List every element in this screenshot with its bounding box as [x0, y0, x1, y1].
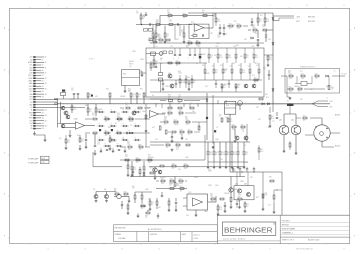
svg-text:2K2: 2K2 [179, 115, 182, 117]
svg-text:R24: R24 [186, 46, 189, 48]
svg-text:22K: 22K [246, 57, 248, 59]
svg-text:SGN: SGN [29, 97, 32, 99]
svg-text:1K: 1K [138, 96, 140, 98]
svg-text:47P: 47P [211, 201, 213, 203]
svg-text:10U: 10U [97, 144, 100, 146]
svg-text:LED2: LED2 [29, 89, 33, 91]
svg-text:C58: C58 [97, 142, 100, 144]
svg-text:R42: R42 [176, 143, 179, 145]
svg-text:22K: 22K [81, 141, 83, 143]
svg-text:220R: 220R [150, 157, 155, 159]
svg-text:1N4148: 1N4148 [224, 193, 229, 195]
svg-text:1K: 1K [225, 34, 227, 36]
svg-text:12V: 12V [129, 66, 132, 68]
svg-text:OUT: OUT [29, 99, 32, 101]
svg-text:100K: 100K [260, 151, 263, 153]
svg-text:R11: R11 [269, 57, 272, 59]
svg-text:4K7: 4K7 [160, 63, 163, 65]
svg-text:A12: A12 [42, 85, 45, 88]
svg-text:R59: R59 [252, 75, 255, 77]
svg-text:4K7: 4K7 [238, 201, 241, 203]
svg-text:R91: R91 [168, 111, 171, 113]
svg-text:R49: R49 [227, 152, 230, 154]
svg-text:R73: R73 [229, 119, 232, 121]
svg-text:R73: R73 [303, 116, 306, 118]
svg-text:1N4148: 1N4148 [120, 96, 125, 98]
svg-text:330R: 330R [241, 129, 244, 131]
svg-text:10K: 10K [315, 78, 317, 80]
svg-text:R: R [105, 116, 106, 118]
svg-text:6: 6 [232, 248, 233, 250]
svg-text:B: B [354, 70, 356, 72]
svg-text:R42: R42 [152, 65, 155, 67]
svg-text:10K: 10K [265, 195, 268, 197]
svg-text:47P: 47P [169, 21, 172, 23]
svg-text:R36: R36 [252, 46, 255, 48]
svg-text:R81: R81 [288, 71, 291, 73]
svg-text:22P: 22P [256, 107, 259, 109]
svg-text:R22: R22 [234, 21, 237, 23]
svg-text:R34: R34 [237, 24, 240, 26]
svg-text:220P: 220P [133, 169, 136, 171]
svg-text:SPEAKER PROTECT: SPEAKER PROTECT [300, 66, 316, 69]
svg-text:C54: C54 [117, 113, 120, 115]
svg-text:R12: R12 [108, 127, 111, 129]
svg-text:C18: C18 [153, 30, 156, 32]
svg-text:10K: 10K [185, 118, 188, 120]
svg-text:IN-R: IN-R [29, 67, 33, 69]
svg-text:C42: C42 [170, 46, 173, 48]
svg-text:47P: 47P [118, 121, 120, 123]
svg-text:jul.07.,1: jul.07.,1 [193, 235, 200, 237]
svg-text:A9: A9 [45, 77, 47, 80]
svg-text:R82: R82 [208, 169, 211, 171]
svg-text:R21: R21 [246, 55, 249, 57]
svg-text:R56: R56 [224, 84, 227, 86]
svg-text:VN: VN [30, 128, 32, 130]
svg-text:47K: 47K [300, 99, 303, 101]
svg-text:R: R [111, 123, 112, 125]
svg-text:A16: A16 [42, 96, 45, 99]
svg-text:R12: R12 [150, 24, 153, 26]
svg-text:NOTE 1: NOTE 1 [89, 59, 95, 61]
svg-text:D5: D5 [288, 132, 290, 134]
svg-text:R86: R86 [265, 193, 268, 195]
svg-text:R60: R60 [219, 55, 222, 57]
svg-text:10K: 10K [185, 139, 188, 141]
svg-text:PROJECT: PROJECT [282, 220, 291, 222]
svg-text:GND: GND [29, 70, 33, 72]
svg-text:R36: R36 [140, 89, 143, 91]
svg-text:R12: R12 [193, 80, 196, 82]
svg-text:47K: 47K [245, 154, 247, 156]
svg-text:100N: 100N [271, 118, 274, 120]
svg-text:A23: A23 [45, 114, 48, 117]
svg-text:A14: A14 [42, 90, 45, 93]
svg-text:47P: 47P [298, 91, 300, 93]
svg-text:B-: B- [31, 110, 33, 112]
svg-text:A22: A22 [42, 111, 45, 114]
svg-text:0R33: 0R33 [232, 171, 236, 173]
svg-text:R75: R75 [242, 70, 245, 72]
svg-text:PWR: PWR [29, 118, 33, 120]
svg-text:A26: A26 [42, 122, 45, 125]
svg-text:47P: 47P [183, 18, 185, 20]
svg-text:C45: C45 [220, 159, 223, 161]
svg-text:100K: 100K [242, 72, 245, 74]
svg-text:DRAWN: DRAWN [115, 233, 122, 236]
svg-text:R63: R63 [168, 95, 171, 97]
svg-text:4K7: 4K7 [223, 87, 226, 89]
svg-text:IC2B: IC2B [147, 108, 152, 110]
svg-text:D5: D5 [214, 55, 216, 57]
svg-text:C64: C64 [178, 95, 181, 97]
svg-text:100K: 100K [145, 189, 149, 191]
svg-text:®: ® [273, 223, 275, 226]
svg-text:14:42: 14:42 [194, 238, 199, 240]
svg-text:220P: 220P [221, 154, 224, 156]
svg-text:A5: A5 [45, 66, 47, 69]
svg-text:R94: R94 [232, 125, 235, 127]
svg-text:10K: 10K [125, 156, 128, 158]
svg-text:A8: A8 [42, 74, 44, 77]
svg-text:R34: R34 [138, 94, 141, 96]
svg-text:CH2: CH2 [29, 123, 32, 125]
svg-text:D5: D5 [196, 63, 198, 65]
svg-text:R90: R90 [246, 204, 249, 206]
svg-text:220P: 220P [186, 124, 189, 126]
svg-text:22K: 22K [141, 208, 143, 210]
svg-text:R88: R88 [245, 152, 248, 154]
svg-text:A11: A11 [45, 82, 48, 85]
svg-text:1: 1 [47, 5, 48, 7]
svg-text:47P: 47P [210, 57, 212, 59]
svg-text:10K: 10K [235, 86, 238, 88]
svg-text:R98: R98 [209, 152, 212, 154]
svg-text:R: R [129, 116, 130, 118]
svg-text:R32: R32 [216, 46, 219, 48]
svg-text:22K: 22K [167, 12, 170, 14]
svg-text:100N: 100N [289, 78, 292, 80]
svg-text:100K: 100K [176, 185, 179, 187]
svg-text:100K: 100K [162, 177, 166, 179]
svg-text:R99: R99 [145, 216, 148, 218]
svg-text:330R: 330R [160, 54, 165, 56]
svg-text:R37: R37 [271, 116, 274, 118]
svg-text:2K2: 2K2 [250, 25, 253, 27]
svg-text:R30: R30 [198, 46, 201, 48]
svg-text:VCC: VCC [29, 91, 33, 93]
svg-text:B: B [4, 70, 6, 72]
svg-text:2: 2 [84, 5, 85, 7]
svg-text:C45: C45 [232, 63, 235, 65]
svg-text:R85: R85 [254, 78, 257, 80]
svg-text:R89 0R22: R89 0R22 [308, 21, 315, 23]
svg-text:47P: 47P [166, 36, 168, 38]
svg-text:R14: R14 [141, 204, 144, 206]
svg-text:10K: 10K [310, 89, 313, 91]
svg-text:R71: R71 [219, 115, 222, 117]
svg-text:220R: 220R [208, 185, 213, 187]
svg-text:C61: C61 [263, 67, 266, 69]
svg-text:D: D [354, 153, 356, 155]
svg-text:4K7: 4K7 [268, 205, 271, 207]
svg-text:C95: C95 [143, 169, 146, 171]
svg-text:LED1: LED1 [29, 86, 33, 88]
svg-text:R91: R91 [132, 186, 135, 188]
svg-text:Q22: Q22 [244, 183, 247, 185]
svg-text:R47: R47 [187, 80, 190, 82]
svg-text:IC4: IC4 [226, 105, 229, 107]
svg-text:A6: A6 [42, 69, 44, 72]
svg-text:10K: 10K [89, 111, 91, 113]
svg-text:R30: R30 [217, 19, 220, 21]
svg-text:R47: R47 [157, 34, 160, 36]
svg-text:R: R [123, 109, 124, 111]
svg-text:R76: R76 [221, 152, 224, 154]
svg-text:1K: 1K [216, 127, 218, 129]
svg-text:A15: A15 [45, 93, 48, 96]
svg-text:330R: 330R [194, 177, 199, 179]
svg-text:220P: 220P [219, 209, 222, 211]
svg-text:10K: 10K [256, 65, 259, 67]
svg-text:1M: 1M [143, 17, 146, 19]
svg-text:OUT-: OUT- [329, 107, 333, 109]
svg-text:100K: 100K [301, 78, 304, 80]
svg-text:4K7: 4K7 [232, 25, 235, 27]
svg-text:+85V: +85V [296, 17, 301, 19]
svg-text:100N: 100N [165, 86, 169, 88]
svg-text:100K: 100K [228, 57, 231, 59]
svg-text:R12: R12 [256, 197, 259, 199]
svg-text:A24: A24 [42, 117, 45, 120]
svg-text:R16: R16 [202, 10, 205, 12]
svg-text:R84: R84 [331, 87, 334, 89]
svg-text:R11: R11 [241, 125, 244, 127]
svg-text:C77: C77 [272, 121, 275, 123]
svg-text:22P: 22P [250, 177, 253, 179]
svg-text:100K: 100K [215, 185, 219, 187]
svg-text:R: R [105, 130, 106, 132]
svg-text:10K: 10K [202, 65, 205, 67]
svg-text:100N: 100N [73, 109, 76, 111]
svg-text:A25: A25 [45, 119, 48, 122]
svg-text:SHEET 1 OF 2: SHEET 1 OF 2 [282, 240, 294, 242]
svg-text:R12: R12 [255, 63, 258, 65]
svg-text:4K7: 4K7 [210, 195, 213, 197]
svg-text:7C: 7C [334, 71, 337, 73]
svg-text:100N: 100N [132, 51, 136, 53]
svg-text:R: R [99, 137, 100, 139]
svg-text:VEE: VEE [29, 94, 32, 96]
svg-text:R57: R57 [289, 87, 292, 89]
svg-text:4K7: 4K7 [180, 191, 183, 193]
svg-text:330R: 330R [204, 211, 209, 213]
svg-text:D11: D11 [255, 33, 258, 35]
svg-text:100K: 100K [233, 154, 236, 156]
svg-text:C: C [354, 111, 356, 113]
svg-text:100N: 100N [215, 139, 219, 141]
svg-text:NC: NC [30, 102, 33, 104]
svg-text:22K: 22K [168, 96, 171, 98]
svg-text:C41: C41 [212, 66, 215, 68]
svg-text:47U: 47U [244, 39, 247, 41]
svg-text:C45: C45 [248, 66, 251, 68]
svg-text:C: C [193, 58, 195, 60]
svg-text:47K: 47K [168, 18, 170, 20]
svg-text:IC2A: IC2A [74, 118, 79, 121]
svg-text:1N4148: 1N4148 [222, 69, 227, 71]
svg-text:R57: R57 [238, 84, 241, 86]
svg-text:FAN+: FAN+ [29, 80, 33, 83]
svg-text:D5: D5 [244, 145, 246, 147]
svg-text:BEHRINGER: BEHRINGER [224, 227, 273, 234]
svg-text:R11: R11 [136, 158, 139, 160]
svg-text:R39: R39 [132, 94, 135, 96]
svg-text:22P: 22P [136, 13, 139, 15]
svg-text:220P: 220P [255, 57, 258, 59]
svg-text:C88: C88 [245, 162, 248, 164]
svg-text:BD249: BD249 [335, 114, 340, 116]
svg-text:A28: A28 [42, 127, 45, 130]
svg-text:100K: 100K [238, 103, 242, 105]
svg-text:C45: C45 [186, 215, 189, 217]
svg-text:1K: 1K [224, 72, 226, 74]
svg-text:10K: 10K [156, 21, 159, 23]
svg-text:CHANNEL-1: CHANNEL-1 [282, 232, 294, 235]
svg-text:4K7: 4K7 [229, 28, 232, 30]
svg-text:R97: R97 [210, 194, 213, 196]
svg-text:R: R [135, 137, 136, 139]
svg-text:4: 4 [158, 248, 159, 250]
svg-text:A-12: A-12 [42, 157, 45, 160]
svg-text:4K7: 4K7 [164, 124, 167, 126]
svg-text:1K: 1K [175, 24, 177, 26]
svg-text:C: C [4, 111, 6, 113]
svg-text:R20: R20 [166, 34, 169, 36]
svg-text:R19: R19 [81, 139, 84, 141]
svg-text:220P: 220P [269, 59, 272, 61]
svg-text:R57: R57 [77, 135, 80, 137]
svg-text:A: A [4, 27, 6, 30]
svg-text:PROT: PROT [28, 75, 32, 77]
svg-text:A2: A2 [42, 58, 44, 61]
svg-text:R77: R77 [148, 155, 151, 157]
svg-text:2K2: 2K2 [303, 120, 306, 122]
svg-text:10K: 10K [128, 149, 130, 151]
svg-text:B-12: B-12 [42, 162, 45, 164]
svg-text:R69: R69 [215, 152, 218, 154]
svg-text:4K7: 4K7 [176, 65, 179, 67]
svg-text:1K: 1K [89, 96, 91, 98]
svg-text:R5: R5 [143, 15, 145, 17]
svg-text:D5: D5 [122, 139, 124, 141]
svg-text:47U: 47U [263, 69, 266, 71]
svg-text:1K: 1K [219, 116, 221, 118]
svg-text:R65: R65 [190, 103, 193, 105]
svg-text:R35: R35 [128, 89, 131, 91]
svg-text:R67: R67 [124, 192, 127, 194]
svg-text:POWER AMP: POWER AMP [28, 162, 39, 165]
svg-text:R12: R12 [233, 152, 236, 154]
svg-text:R75: R75 [125, 155, 128, 157]
svg-text:0R33: 0R33 [208, 171, 212, 173]
svg-text:1N4148: 1N4148 [204, 73, 209, 75]
svg-text:R: R [105, 143, 106, 145]
svg-text:10K: 10K [220, 65, 223, 67]
svg-text:4K7: 4K7 [181, 32, 184, 34]
svg-text:47U: 47U [240, 56, 243, 58]
svg-text:2K2: 2K2 [152, 67, 155, 69]
svg-text:A1: A1 [45, 56, 47, 59]
svg-text:47K: 47K [128, 91, 131, 93]
svg-text:R12: R12 [156, 19, 159, 21]
svg-text:-85V: -85V [296, 21, 300, 23]
svg-text:2K2: 2K2 [225, 117, 228, 119]
svg-text:D5: D5 [115, 123, 117, 125]
svg-text:C: C [188, 58, 190, 60]
svg-text:RL1: RL1 [123, 74, 126, 76]
svg-text:2K2: 2K2 [210, 33, 213, 35]
svg-text:-15V: -15V [29, 59, 33, 61]
svg-text:F: F [4, 236, 6, 238]
svg-text:R60: R60 [183, 13, 186, 15]
svg-text:D5: D5 [172, 103, 174, 105]
svg-text:R88 0R22: R88 0R22 [308, 17, 315, 19]
svg-text:4K7: 4K7 [164, 118, 167, 120]
svg-text:R: R [99, 123, 100, 125]
svg-text:100K: 100K [185, 157, 189, 159]
svg-text:100N: 100N [176, 147, 179, 149]
svg-text:J4: J4 [326, 98, 328, 100]
svg-text:22K: 22K [105, 121, 107, 123]
svg-text:R62: R62 [255, 55, 258, 57]
svg-text:9: 9 [343, 248, 344, 250]
svg-text:22K: 22K [254, 82, 256, 84]
svg-text:R83: R83 [259, 19, 262, 21]
svg-text:R41: R41 [315, 74, 318, 76]
svg-text:R76: R76 [266, 97, 269, 99]
svg-text:47U: 47U [236, 45, 239, 47]
svg-text:+15V: +15V [29, 57, 34, 59]
svg-text:6: 6 [232, 5, 233, 7]
svg-text:R31: R31 [133, 167, 136, 169]
svg-text:100K: 100K [156, 39, 160, 41]
svg-text:C26: C26 [262, 25, 265, 27]
svg-text:R52: R52 [92, 113, 95, 115]
svg-text:47P: 47P [157, 36, 159, 38]
svg-text:POWER AMP: POWER AMP [28, 157, 39, 160]
svg-text:R20: R20 [180, 130, 183, 132]
svg-text:A: A [354, 27, 356, 30]
svg-text:R44: R44 [73, 107, 76, 109]
svg-text:OUT+: OUT+ [329, 101, 333, 103]
svg-text:R40: R40 [172, 164, 175, 166]
svg-text:R19: R19 [181, 30, 184, 32]
svg-text:RELAY: RELAY [129, 60, 134, 63]
svg-text:B+: B+ [31, 107, 33, 109]
svg-text:47K: 47K [265, 94, 268, 96]
svg-text:47U: 47U [258, 119, 261, 121]
svg-text:R31: R31 [180, 186, 183, 188]
svg-text:CLIP: CLIP [29, 73, 32, 75]
svg-text:CH1: CH1 [29, 120, 32, 122]
svg-text:1K: 1K [160, 60, 162, 62]
svg-text:R59: R59 [127, 142, 130, 144]
svg-text:R16: R16 [210, 55, 213, 57]
svg-text:R13: R13 [176, 61, 179, 63]
svg-text:Q21: Q21 [235, 183, 238, 185]
